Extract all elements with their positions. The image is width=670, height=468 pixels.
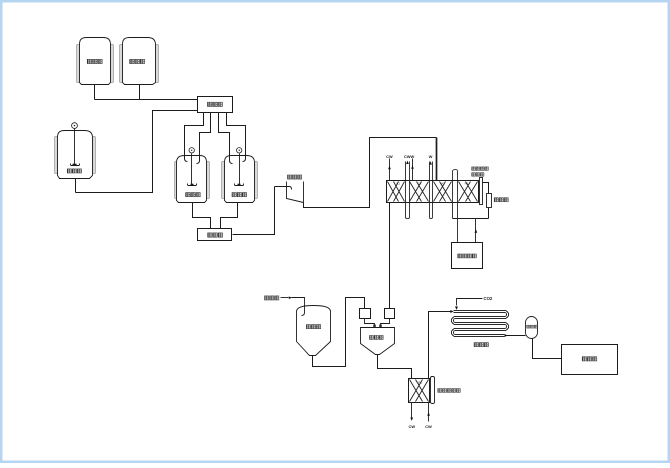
svg-text:R1: R1 [418, 380, 422, 384]
svg-text:CW: CW [425, 424, 432, 429]
svg-text:C1: C1 [396, 182, 400, 186]
svg-text:CW: CW [386, 154, 393, 159]
svg-text:CW: CW [408, 424, 415, 429]
svg-text:H1: H1 [441, 182, 445, 186]
svg-text:CWW: CWW [404, 154, 415, 159]
svg-text:W: W [429, 154, 433, 159]
svg-text:CO2: CO2 [483, 296, 492, 301]
svg-text:H2: H2 [465, 182, 469, 186]
svg-text:C2: C2 [418, 182, 422, 186]
